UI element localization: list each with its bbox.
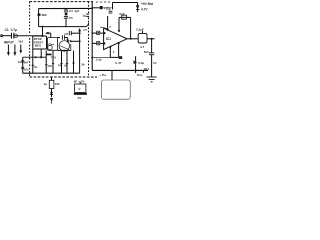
ground symbol output xyxy=(147,76,157,78)
mic capsule black square xyxy=(38,14,41,16)
bias column 5 xyxy=(66,51,68,74)
feedback loop top wire xyxy=(119,16,131,18)
transistor TR2 circle xyxy=(59,41,69,51)
capacitor on mid wire xyxy=(58,37,61,39)
pin box 2 xyxy=(97,31,100,34)
right riser with arrow top xyxy=(79,31,81,73)
svg-text:1µ: 1µ xyxy=(44,82,48,86)
inner rectangle bottom edge xyxy=(39,26,86,28)
arrow lead 2 xyxy=(14,45,16,53)
inner rectangle top edge / supply line xyxy=(39,7,93,9)
svg-text:+9V Bat: +9V Bat xyxy=(141,2,154,6)
bias rail mid xyxy=(23,56,47,58)
svg-text:+ P.u.: + P.u. xyxy=(99,73,107,77)
emitter vertical xyxy=(70,44,72,50)
node input/box xyxy=(41,35,43,37)
svg-text:C4: C4 xyxy=(69,9,73,13)
svg-text:5k6: 5k6 xyxy=(144,50,149,54)
wire cap stack vertical xyxy=(65,9,67,11)
shield box dashed left edge xyxy=(29,2,31,35)
svg-text:4k7: 4k7 xyxy=(24,60,29,64)
output wire after cap xyxy=(147,38,155,40)
wire long vertical right of shield xyxy=(91,2,93,70)
pot vertical xyxy=(135,56,137,73)
svg-text:47k: 47k xyxy=(47,64,52,68)
feedback loop left drop xyxy=(118,17,120,30)
diagonal emitter wire xyxy=(60,46,68,50)
svg-text:10n: 10n xyxy=(24,67,29,71)
svg-text:C2: C2 xyxy=(18,60,22,64)
svg-text:4.7V: 4.7V xyxy=(141,8,148,12)
svg-text:4.7: 4.7 xyxy=(140,45,145,49)
horizontal collector line xyxy=(58,49,71,51)
node supply out xyxy=(91,7,93,9)
bias column 6 xyxy=(73,51,75,74)
wire cap to riser xyxy=(103,7,113,9)
shield box dashed right edge xyxy=(88,2,90,13)
pot wiper arrow xyxy=(133,60,137,64)
resistor chain below shield xyxy=(51,77,53,80)
wire rect bottom to stage box xyxy=(42,27,44,36)
feedback loop right drop to output xyxy=(130,17,132,38)
input terminal xyxy=(1,35,3,37)
output wire from op-amp xyxy=(127,38,138,40)
feedthrough capacitor on shield wall xyxy=(86,13,89,15)
output coupling cap box xyxy=(138,33,147,43)
svg-text:1P: 1P xyxy=(153,61,157,65)
svg-text:INPUT: INPUT xyxy=(4,40,15,44)
svg-text:4.7µ: 4.7µ xyxy=(11,28,17,32)
TR2 collector arrow xyxy=(67,38,69,40)
ground rail xyxy=(23,72,80,74)
op-amp U1 triangle xyxy=(104,28,127,49)
svg-text:9F + 7k: 9F + 7k xyxy=(74,79,85,83)
capacitor C1 4.7u plates xyxy=(11,33,13,39)
svg-text:TR1: TR1 xyxy=(51,56,57,60)
svg-text:4µ7: 4µ7 xyxy=(74,9,79,13)
input pin stub 2 xyxy=(92,32,103,34)
svg-text:2.2µ: 2.2µ xyxy=(138,61,144,65)
junction blob between caps xyxy=(65,13,68,15)
cap stub at y33 xyxy=(71,32,79,34)
stage block box xyxy=(33,36,47,49)
bias column 4 xyxy=(61,51,63,74)
svg-text:C7: C7 xyxy=(83,28,87,32)
op-amp bottom pin a xyxy=(109,47,111,58)
shield box dashed bottom edge xyxy=(30,76,98,78)
supply entry vertical at +9V xyxy=(137,3,139,13)
tick on output line xyxy=(143,70,145,72)
node pot wiper line xyxy=(135,69,137,71)
svg-text:5µ6: 5µ6 xyxy=(119,12,124,16)
svg-text:MIC: MIC xyxy=(42,13,48,17)
emitter bar under TR1 xyxy=(46,54,51,56)
feedback component box xyxy=(122,15,127,19)
polarity circle at C1 xyxy=(14,34,17,37)
outside cap column xyxy=(22,57,24,73)
svg-text:R.u.: R.u. xyxy=(137,73,143,77)
U-bend below op-amp xyxy=(110,56,118,58)
capacitor C3 plates xyxy=(64,15,68,17)
capacitor stack C2 plates xyxy=(64,9,68,11)
hook from bottom edge to shield xyxy=(86,23,89,27)
svg-text:IC1: IC1 xyxy=(106,37,111,41)
svg-text:WH1: WH1 xyxy=(35,44,42,48)
svg-text:C5: C5 xyxy=(69,16,73,20)
svg-text:2k2: 2k2 xyxy=(18,40,23,44)
svg-text:R12: R12 xyxy=(144,67,150,71)
diode D1 xyxy=(136,5,139,9)
wire diagonal into pin7 node xyxy=(100,27,108,29)
arrow lead 3 xyxy=(20,45,22,51)
wire riser to +9V rail xyxy=(112,3,114,10)
svg-text:C6: C6 xyxy=(64,32,68,36)
capacitor +10u blob xyxy=(100,6,103,9)
arrow into box1 xyxy=(45,32,49,35)
wire C1 to box xyxy=(14,35,43,37)
battery box xyxy=(75,84,86,92)
svg-text:10k: 10k xyxy=(55,82,60,86)
svg-text:2k: 2k xyxy=(81,63,85,67)
decoupling blob under riser xyxy=(109,10,113,12)
svg-text:+10µ: +10µ xyxy=(104,6,111,10)
arrow lead 1 xyxy=(7,45,9,53)
small circle inside box2 xyxy=(48,45,52,49)
text labels xyxy=(4,2,157,100)
shield box dashed top extension right xyxy=(96,1,112,3)
wire stub to right riser xyxy=(71,40,80,42)
wire input horizontal xyxy=(3,35,12,37)
bias column 2 xyxy=(45,50,47,73)
wire box left bias down xyxy=(32,49,34,73)
big bottom-right box xyxy=(102,80,131,99)
+9V rail top right xyxy=(113,2,138,4)
squiggle inside box2 xyxy=(48,44,54,45)
svg-text:2.2µF: 2.2µF xyxy=(136,28,144,32)
svg-text:1µ: 1µ xyxy=(83,13,87,17)
shield box dashed top edge xyxy=(30,1,94,3)
op-amp bottom pin b xyxy=(118,43,120,58)
inner rectangle left edge xyxy=(38,9,40,27)
output drop vertical xyxy=(151,39,153,53)
node stub2 xyxy=(91,32,93,34)
top tick on cap box xyxy=(142,31,144,34)
pin box 3 xyxy=(97,42,100,45)
input pin stub 3 xyxy=(92,42,103,44)
wire supply out to cap xyxy=(92,7,100,9)
feedback rail to inverting node xyxy=(92,57,110,59)
svg-text:C1: C1 xyxy=(5,28,9,32)
svg-text:1µ: 1µ xyxy=(58,63,62,67)
bias column 3 xyxy=(52,51,54,74)
svg-text:9k: 9k xyxy=(64,64,68,68)
tick to monitor box xyxy=(111,70,113,80)
node stub3 xyxy=(91,43,93,45)
bottom long output line xyxy=(92,69,148,71)
blob at U-bend xyxy=(119,56,122,59)
svg-text:0.47: 0.47 xyxy=(115,61,121,65)
wire from arrow xyxy=(48,32,51,34)
wire op-amp V+ pin 7 xyxy=(107,16,109,30)
svg-text:1.0µ: 1.0µ xyxy=(96,58,102,62)
svg-text:4n: 4n xyxy=(34,65,38,69)
cap on output drop xyxy=(149,52,154,54)
wire box1 bottom drop xyxy=(40,49,42,57)
transistor block box2 xyxy=(48,38,58,51)
